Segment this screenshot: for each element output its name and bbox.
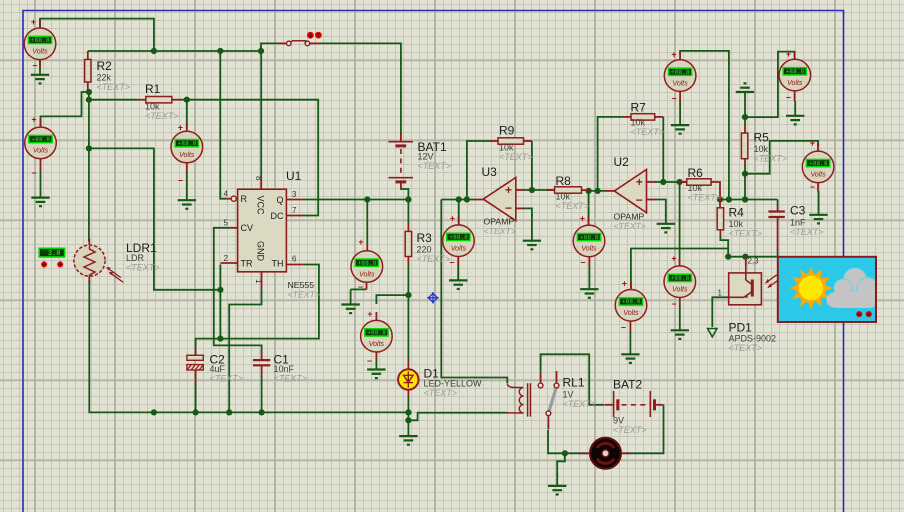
svg-text:+88.8: +88.8 [449,234,468,241]
stub relay sw common [547,416,549,430]
resistor R3 [405,231,411,256]
svg-text:RL1: RL1 [563,376,585,390]
stub LDR bottom [88,276,90,284]
stub VM10 top [679,52,681,60]
svg-text:1: 1 [254,279,263,284]
wire VM3 riser [186,100,188,128]
resistor R8 [555,187,582,193]
voltmeter VM7 [573,225,605,257]
stub VM11 top [794,52,796,59]
svg-text:OPAMP: OPAMP [614,212,645,222]
svg-text:VCC: VCC [256,196,266,216]
junction bus/GNDpin [226,409,232,415]
wire R5 node down to bus [744,174,746,200]
stub VM4 top [366,243,368,251]
ground under VM3 [178,172,196,209]
stub speaker right [622,452,630,454]
stub R7 right [655,116,664,118]
battery BAT1 [389,142,414,182]
svg-text:+: + [580,214,585,224]
wire TR vertical [219,265,221,339]
svg-text:8: 8 [254,176,263,181]
stub U3 out [475,199,484,201]
stub VM2 bottom [40,159,42,171]
svg-text:+88.8: +88.8 [671,275,690,282]
LDR1 light arrows [106,267,123,282]
voltmeter VM12 [802,151,834,183]
label BAT1 [418,140,452,171]
pin bubble pin4 R [231,196,236,201]
label C3 [790,204,824,238]
stub R1 right [172,99,181,101]
label R8 [556,174,590,211]
stub pin6 TH [286,264,303,266]
junction VM8/C3 node [725,254,731,260]
svg-text:<TEXT>: <TEXT> [499,152,533,162]
wire R5 bottom node [745,141,818,174]
wire relay sw NO loop [541,354,604,405]
wire R5 top stub green [744,117,746,125]
svg-text:R9: R9 [499,124,515,138]
LDR1 body [74,245,105,276]
relay RL1 core [528,383,531,416]
wire R3 bottom to D1 [407,264,409,360]
wire VM5 branch [376,295,408,304]
svg-text:LED-YELLOW: LED-YELLOW [424,379,483,389]
stub C3 bottom [777,217,779,251]
wire D1 bottom to dots [407,397,409,421]
stub VM6 bottom [457,256,459,266]
op-amp U2 body [614,170,646,213]
svg-text:+: + [671,254,676,264]
wire R1 right to DC corner [180,100,318,216]
svg-text:22k: 22k [97,73,112,83]
voltmeter VM4 [351,251,383,283]
svg-text:Volts: Volts [451,246,467,253]
battery BAT2 [614,391,655,417]
stub VM4 bottom [366,282,368,289]
svg-text:<TEXT>: <TEXT> [729,343,763,353]
resistor R6 [687,179,711,185]
svg-text:<TEXT>: <TEXT> [790,227,824,237]
svg-text:<TEXT>: <TEXT> [631,127,665,137]
ground under VM11 [786,101,804,124]
svg-text:C3: C3 [790,204,806,218]
svg-text:DC: DC [271,211,284,221]
label D1 [424,367,483,399]
svg-text:220: 220 [417,245,432,255]
svg-text:+: + [636,175,643,189]
svg-text:−: − [367,356,372,366]
svg-text:−: − [358,282,363,292]
junction Q/VM4 [364,196,370,202]
ground under VM9 [671,306,689,339]
svg-text:+: + [505,183,512,197]
stub VM3 bottom [186,163,188,173]
svg-text:10nF: 10nF [274,364,295,374]
resistor R7 [631,114,655,120]
svg-text:+88.8: +88.8 [178,140,197,147]
origin marker [427,292,439,304]
svg-text:10k: 10k [145,102,160,112]
svg-text:+: + [671,50,676,60]
svg-text:Volts: Volts [672,287,688,294]
stub VM6 top [458,217,460,225]
wire VM10 plus run [680,51,729,200]
stub VM12 top [817,143,819,151]
junction bus/C2 [193,409,199,415]
svg-text:−: − [671,94,676,104]
stub VM1 bottom [39,59,41,67]
wire VM4 riser [366,200,368,244]
junction PD1 collector [742,254,748,260]
label R3 [417,231,451,264]
junction bus/x154 [151,409,157,415]
svg-text:10k: 10k [754,144,769,154]
svg-text:Volts: Volts [623,310,639,317]
svg-text:<TEXT>: <TEXT> [288,290,320,300]
svg-text:6: 6 [292,255,297,264]
svg-text:7: 7 [292,206,297,215]
svg-text:3.0: 3.0 [48,250,61,258]
svg-text:−: − [505,201,512,215]
label R5 [754,131,788,164]
label R4 [729,206,763,239]
wire U2 plus input row [655,181,680,183]
stub C1 bottom [261,365,263,376]
svg-text:2,3: 2,3 [748,257,760,266]
wire VM2 plus to R2 bottom node [41,92,87,127]
svg-text:−: − [32,61,37,71]
svg-text:R1: R1 [145,82,161,96]
svg-text:R2: R2 [97,59,113,73]
wire GND pin run to bus [229,290,261,412]
junction R1 right/VM3 [184,97,190,103]
wire C1 bottom stub green [261,376,263,412]
wire Q output row [304,199,409,201]
wire VM8 plus run [631,236,728,288]
ground under VM5 [367,359,385,378]
resistor R2 [85,60,91,83]
svg-text:10k: 10k [688,183,703,193]
wire TH run to C2 top [196,265,319,349]
wire R7 right leg [662,117,664,182]
wire U2 plus to R6 [680,181,687,183]
stub VM5 top [375,312,377,320]
wire C2 bottom stub green [195,384,197,412]
svg-text:U1: U1 [286,169,302,183]
svg-text:Volts: Volts [33,148,49,155]
wire switch to BAT1 top [319,43,401,135]
ground under VM2 [31,170,49,206]
stub U3 minus [516,207,525,209]
PD1 light arrows [765,275,780,288]
label RL1 [563,376,597,410]
wire VCC bus y=51 [88,50,261,52]
svg-text:TR: TR [241,258,253,268]
wire PD1 emitter run [712,297,728,327]
wire BAT1 bottom jog [401,188,409,200]
capacitor C1 [253,360,270,365]
svg-text:OPAMP: OPAMP [484,217,515,227]
svg-text:1: 1 [718,289,723,298]
label R7 [631,101,665,138]
stub pin7 DC [286,215,303,217]
svg-text:+88.8: +88.8 [622,299,641,306]
label C1 [274,353,308,384]
label U3 opamp [484,217,516,237]
junction R5/VM12 [742,171,748,177]
ground U2 minus [657,214,675,232]
label R6 [688,166,722,203]
stub VM2 top [40,119,42,128]
stub R6 left [680,181,687,183]
wire U3 minus input row [524,208,532,216]
junction VCC bus/pin8 [258,48,264,54]
op-amp U3 body [483,178,516,221]
svg-text:<TEXT>: <TEXT> [563,399,597,409]
stub D1 bottom [407,389,409,397]
svg-text:+: + [810,138,815,148]
svg-text:4: 4 [224,190,229,199]
label R2 [97,59,131,92]
svg-text:+: + [450,214,455,224]
junction R1 left [86,97,92,103]
stub VM3 top [186,123,188,131]
wire node x89 down to LDR [88,100,90,242]
stub U2 plus [647,181,656,183]
svg-text:+: + [786,49,791,59]
svg-text:<TEXT>: <TEXT> [274,374,308,384]
svg-text:<TEXT>: <TEXT> [729,229,763,239]
junction bus/VM10 [726,196,732,202]
wire speaker gnd tap [557,453,565,476]
junction D1 gnd tap [405,417,411,423]
svg-text:+88.8: +88.8 [31,136,50,143]
voltmeter VM5 [361,320,393,352]
relay RL1 contact NC [554,383,559,388]
stub relay sw NC [556,371,558,383]
capacitor C2 [187,355,203,370]
junction R3/VM5 [405,292,411,298]
capacitor C3 [768,212,784,218]
stub U2 minus [647,199,656,201]
svg-text:−: − [786,93,791,103]
stub R5 top [744,125,746,133]
svg-text:+88.8: +88.8 [580,234,599,241]
svg-text:APDS-9002: APDS-9002 [729,334,777,344]
svg-text:−: − [31,168,36,178]
svg-text:Volts: Volts [32,49,48,56]
wire R1 left stub green [89,99,138,101]
svg-text:12V: 12V [418,152,434,162]
IC U1 NE555 body [238,189,287,272]
junction TR/C2C1 line [217,336,223,342]
svg-text:5: 5 [224,219,229,228]
wire VM1 top to VCC bus [40,19,154,51]
wire VM4 minus jog [351,288,367,290]
svg-text:R8: R8 [556,174,572,188]
svg-text:+: + [31,115,36,125]
svg-text:−: − [449,258,454,268]
stub R8 left [547,189,555,191]
voltmeter VM3 [171,131,203,163]
stub pin4 R [226,198,231,200]
relay RL1 contact NO [538,383,543,388]
wire VCC riser to switch [261,43,277,51]
svg-text:10k: 10k [729,219,744,229]
ground under VM4 [341,289,359,313]
svg-text:+88.8: +88.8 [671,69,690,76]
LDR knob A [41,261,47,267]
svg-text:R4: R4 [729,206,745,220]
svg-text:2: 2 [224,254,229,263]
terminal arrow PD1 pin1 [708,329,717,337]
stub R5 bottom [744,159,746,166]
wire VM11 plus run [745,52,795,118]
junction U3out/R9 [464,196,470,202]
svg-text:−: − [636,193,643,207]
resistor R9 [498,138,524,144]
voltmeter VM6 [443,225,475,257]
stub pin8 VCC [260,180,262,189]
relay RL1 switch blade [549,387,556,411]
stub C2 top [195,348,197,356]
photodetector PD1 body [729,266,762,305]
junction BAT1/R3 [405,196,411,202]
svg-text:−: − [810,182,815,192]
junction x89 y148 [86,145,92,151]
svg-text:U3: U3 [482,165,498,179]
svg-text:1V: 1V [563,390,574,400]
wire LDR bottom to ground bus [89,280,408,412]
stub BAT1 bottom [400,182,402,188]
stub C3 top [777,206,779,212]
label BAT2 [613,378,647,436]
stub R7 left [623,116,632,118]
ground under VM6 [449,266,467,289]
stub VM10 bottom [679,91,681,101]
wire R2 bottom to R1 node [88,90,90,102]
switch SW1 contacts [287,41,310,46]
wire R3 top stub green [407,200,409,224]
stub BAT2 right [655,404,664,406]
svg-text:+: + [31,17,36,27]
svg-text:Volts: Volts [672,80,688,87]
svg-text:4uF: 4uF [210,364,226,374]
ground at D1 node [399,420,417,444]
junction bus/R5 [742,196,748,202]
svg-text:−: − [580,258,585,268]
resistor R4 [717,208,723,230]
stub VM8 top [630,282,632,290]
junction U3out/VM6 [456,196,462,202]
svg-text:<TEXT>: <TEXT> [417,254,451,264]
svg-text:+: + [178,123,183,133]
svg-text:+88.8: +88.8 [367,330,386,337]
svg-text:Volts: Volts [179,152,195,159]
stub R8 right [582,189,590,192]
stub R3 top [407,223,409,231]
relay RL1 contact common [546,411,551,416]
ground under VM8 [621,331,639,363]
wire R9 left leg [467,141,490,200]
svg-text:CV: CV [241,223,254,233]
svg-text:TH: TH [272,258,284,268]
wire BAT2 right to speaker [624,405,664,454]
junction R6/R4 [717,196,723,202]
svg-text:<TEXT>: <TEXT> [688,193,722,203]
wire bus y199 right [720,199,778,201]
svg-text:BAT2: BAT2 [613,378,642,392]
stub U2 out [606,190,615,192]
wire branch y148 to x154 [89,148,221,289]
svg-text:<TEXT>: <TEXT> [97,82,131,92]
stub VM7 bottom [588,257,590,267]
wire speaker left to sw common [548,430,588,453]
stub U3 plus [516,189,525,191]
wire R8 right to U2 out [589,190,607,192]
svg-text:R5: R5 [754,131,770,145]
stub pin1 GND [261,272,263,290]
stub BAT1 top [400,134,402,142]
resistor R5 [741,133,747,159]
wire U3out row [441,199,475,201]
wire R pin from bus [220,51,226,199]
svg-text:R: R [241,194,248,204]
voltmeter VM8 [615,290,647,322]
svg-text:1nF: 1nF [790,218,806,228]
voltmeter VM11 [779,59,811,91]
svg-text:Volts: Volts [359,271,375,278]
resistor R1 [146,97,172,103]
junction R8/R7 [595,188,601,194]
stub switch right [310,42,320,44]
wire CV run to C1 top [214,228,262,351]
svg-text:GND: GND [256,241,266,262]
junction D1 bottom [405,409,411,415]
wire R9 right leg [531,141,533,190]
LDR knob B [57,261,63,267]
junction R2 bottom [86,89,92,95]
junction VCC bus/pin4 [217,48,223,54]
ground inverted above R5 [736,83,754,117]
stub pin2 TR [220,262,237,264]
svg-text:+88.8: +88.8 [358,260,377,267]
svg-text:<TEXT>: <TEXT> [614,221,646,231]
wire VCC pin8 from bus [260,51,262,180]
label U2 opamp [614,212,646,232]
picture sun and cloud [778,257,878,322]
svg-text:−: − [178,176,183,186]
stub switch left [277,42,287,44]
stub VM5 bottom [375,352,377,360]
stub VM12 bottom [817,183,819,192]
junction bus/C1 [259,409,265,415]
svg-text:U2: U2 [614,155,630,169]
stub R4 bottom [719,230,721,237]
svg-text:LDR: LDR [126,253,145,263]
stub VM9 top [679,258,681,266]
voltmeter VM9 [664,266,696,298]
stub VM11 bottom [794,91,796,102]
ground under VM1 [31,60,49,84]
stub R1 left [138,99,146,101]
stub LDR top [88,239,90,246]
ground under VM7 [580,266,598,298]
stub D1 top [407,360,409,370]
svg-text:+: + [358,237,363,247]
